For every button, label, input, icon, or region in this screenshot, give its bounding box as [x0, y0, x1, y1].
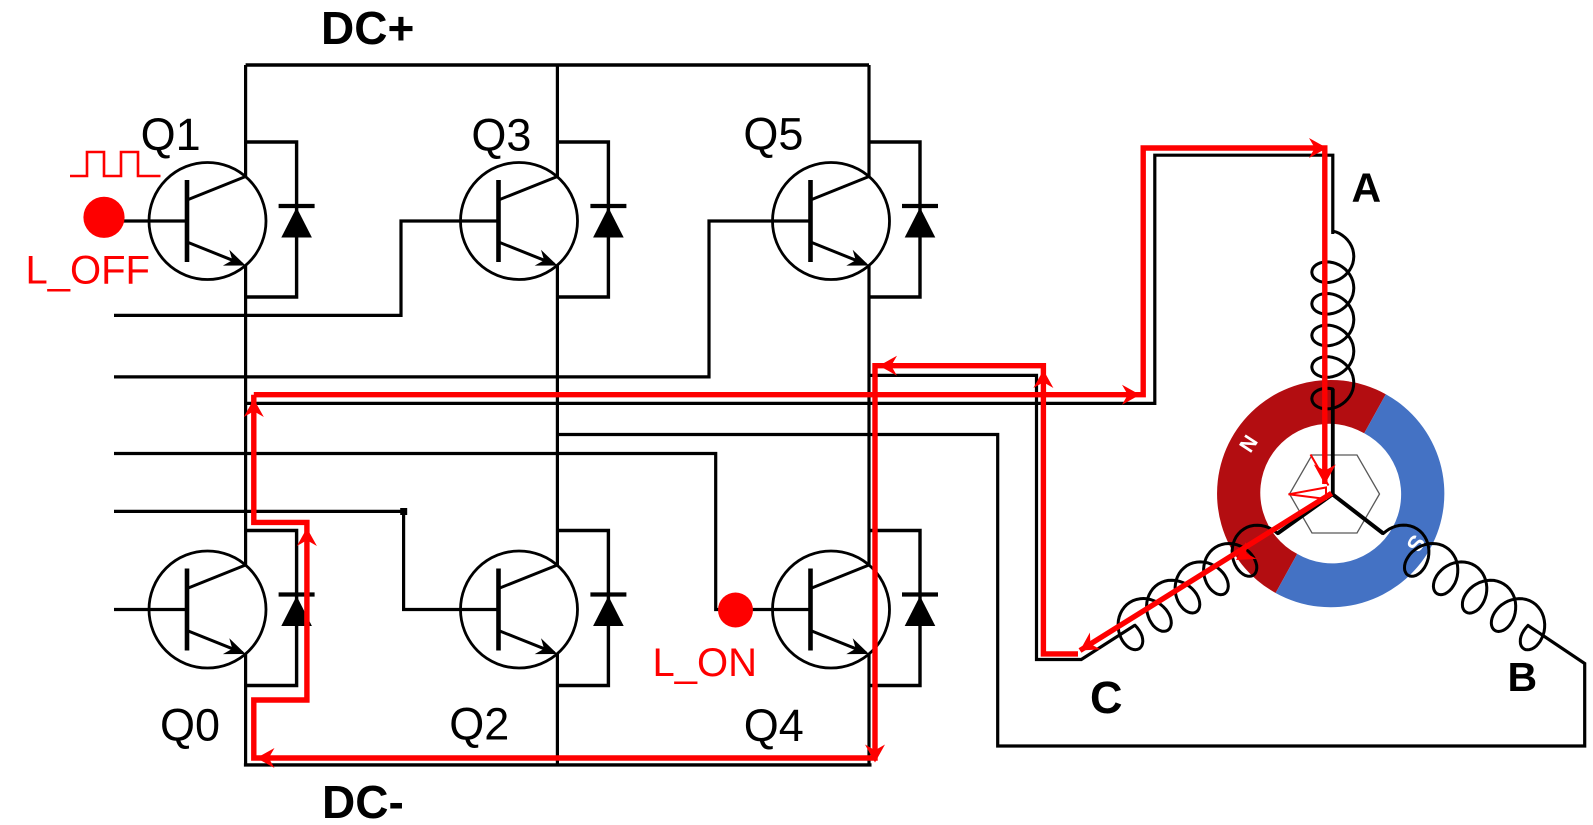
red rotation indicator arrowhead (outline) — [1289, 488, 1327, 500]
diode D4 (freewheel) with connecting wires — [869, 531, 938, 686]
diode D1 (freewheel) with connecting wires — [246, 142, 315, 297]
red arrow right on phase A feed — [1122, 385, 1140, 405]
svg-text:DC+: DC+ — [321, 2, 414, 54]
red arrow up from phase C return — [1033, 370, 1053, 388]
red arrow left on DC- rail — [257, 748, 275, 768]
rotor magnet north half (dark red) — [1217, 380, 1386, 593]
wire Q5 base drive (stub to left edge) — [114, 221, 811, 377]
star point lead to winding C (down-left spoke) — [1278, 494, 1333, 533]
svg-text:L_ON: L_ON — [653, 641, 758, 685]
diode D5 (freewheel) with connecting wires — [869, 142, 938, 297]
wire leg B middle segment (phase B node) — [556, 266, 559, 566]
motor winding C coil — [1118, 525, 1277, 650]
transistor Q0 — [149, 551, 266, 668]
red node L_ON (dot at Q4 base) — [718, 593, 753, 628]
DC+ bus rail — [246, 63, 869, 66]
red arrow at end of winding C diagonal — [1080, 633, 1101, 651]
red current path: gate pulse waveform icon at Q1 — [70, 152, 161, 176]
transistor Q1 — [149, 163, 266, 280]
red arrow up through diode D0 — [297, 528, 317, 546]
svg-text:B: B — [1508, 654, 1538, 700]
star point lead to winding A (vertical) — [1331, 389, 1335, 495]
red node L_OFF (dot at Q1 base) — [83, 197, 124, 238]
wire leg A lower segment — [244, 654, 247, 765]
wire leg A (Q1/Q0 half-bridge) upper segment — [244, 65, 247, 177]
transistor Q2 — [461, 551, 578, 668]
wire leg A middle segment (phase A node) — [244, 266, 247, 566]
wire leg B (Q3/Q2 half-bridge) upper segment — [556, 65, 559, 177]
red arrow left toward Q4 leg — [879, 356, 897, 376]
svg-text:Q0: Q0 — [160, 700, 220, 751]
svg-text:Q5: Q5 — [743, 109, 803, 160]
wire phase C output (leg C node to motor winding C) — [869, 375, 1135, 659]
wire leg C (Q5/Q4 half-bridge) upper segment — [867, 65, 870, 177]
red current path: phase A feed (node A wire to motor winding A) — [254, 148, 1325, 484]
diode D0 (freewheel) with connecting wires — [246, 531, 315, 686]
junction dot on Q2 base wire corner — [400, 508, 407, 515]
red current path: loop through D0, DC- rail, Q4 leg and phase C return — [254, 366, 1078, 758]
transistor Q5 — [773, 163, 890, 280]
wire phase B output (leg B node to motor winding B) — [557, 435, 1584, 747]
wire phase A output (leg A node to motor winding A) — [246, 155, 1333, 403]
svg-text:Q2: Q2 — [449, 699, 509, 750]
transistor Q3 — [461, 163, 578, 280]
red arrow right at top of winding A — [1309, 138, 1327, 158]
svg-text:A: A — [1352, 165, 1382, 211]
red arrow down into star point — [1314, 464, 1336, 484]
svg-text:C: C — [1090, 672, 1123, 723]
red arrow down at Q4 leg — [865, 745, 885, 763]
wire Q4 base drive (stub to left edge) — [114, 454, 811, 610]
red arrow on winding C diagonal (mid) — [1236, 542, 1257, 560]
DC- bus rail — [244, 763, 872, 766]
diode D2 (freewheel) with connecting wires — [557, 531, 626, 686]
star point lead to winding B (down-right spoke) — [1333, 494, 1384, 533]
wire Q0 base lead — [114, 608, 187, 611]
transistor Q4 — [773, 551, 890, 668]
svg-text:L_OFF: L_OFF — [26, 249, 150, 293]
motor winding A coil — [1312, 231, 1354, 409]
wire leg C middle segment (phase C node) — [867, 266, 870, 566]
svg-text:Q1: Q1 — [141, 109, 201, 160]
diode D3 (freewheel) with connecting wires — [557, 142, 626, 297]
red rotation indicator line at rotor center — [1311, 455, 1329, 486]
wire Q1 base lead — [122, 219, 187, 222]
wire leg C lower segment — [867, 654, 870, 765]
wire Q2 base drive (stub to left edge) — [114, 511, 499, 609]
rotor hexagon outline — [1290, 455, 1380, 533]
red arrow up at Q0 node — [244, 399, 264, 417]
wire leg B lower segment — [556, 654, 559, 765]
svg-text:Q3: Q3 — [471, 110, 531, 161]
motor winding B coil — [1383, 525, 1544, 650]
red current path: diagonal through motor winding C — [1080, 493, 1332, 650]
wire Q3 base drive (stub to left edge) — [114, 221, 499, 315]
svg-text:DC-: DC- — [322, 776, 404, 825]
rotor magnet south half (blue) — [1276, 394, 1445, 607]
svg-text:Q4: Q4 — [744, 700, 804, 751]
